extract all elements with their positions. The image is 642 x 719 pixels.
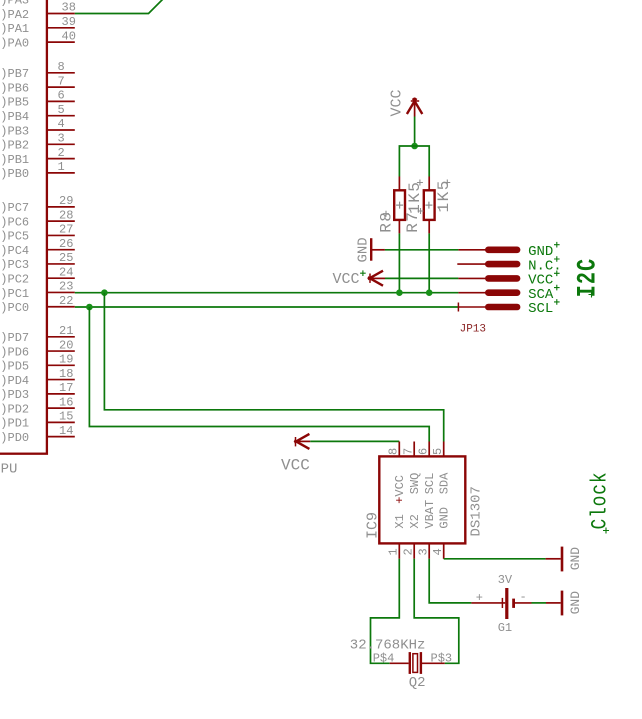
MCU pin PD2 (pin 16) — [47, 407, 75, 409]
MCU pin PB4 (pin 5) — [47, 115, 75, 117]
junction node VCC split — [411, 143, 418, 150]
junction node on PC1 net — [101, 289, 108, 296]
supply symbol VCC (up arrow) above pull-up resistors — [414, 98, 416, 117]
MCU pin PA0 (pin 40) — [47, 41, 75, 43]
svg-text:+VCC: +VCC — [393, 475, 407, 504]
svg-text:)PD7: )PD7 — [0, 331, 29, 345]
svg-text:)PB7: )PB7 — [0, 67, 29, 81]
svg-text:)PB6: )PB6 — [0, 81, 29, 95]
wire GND symbol to I2C pin 1 — [385, 249, 459, 251]
connector JP13 pin 3 VCC — [458, 277, 485, 279]
svg-text:2: 2 — [401, 548, 415, 555]
svg-text:)PD0: )PD0 — [0, 431, 29, 445]
MCU pin PD7 (pin 21) — [47, 336, 75, 338]
MCU pin PD5 (pin 19) — [47, 364, 75, 366]
svg-text:8: 8 — [387, 448, 401, 455]
MCU pin PC6 (pin 28) — [47, 220, 75, 222]
wire battery minus to ground — [532, 602, 547, 604]
wire PA2 pin38 going up-right — [75, 0, 163, 14]
svg-text:VBAT: VBAT — [423, 500, 437, 529]
MCU pin PB6 (pin 7) — [47, 86, 75, 88]
svg-text:3: 3 — [416, 548, 430, 555]
svg-text:GND: GND — [356, 237, 372, 262]
wire DS1307 pin 3 VBAT to battery — [429, 559, 471, 603]
svg-text:18: 18 — [59, 367, 73, 381]
svg-text:)PC0: )PC0 — [0, 301, 29, 315]
svg-text:)PB1: )PB1 — [0, 153, 29, 167]
MCU pin PA2 (pin 38) — [47, 13, 75, 15]
svg-text:SCL: SCL — [423, 473, 437, 495]
svg-text:1: 1 — [58, 160, 65, 174]
svg-text:8: 8 — [58, 60, 65, 74]
battery G1 3V — [471, 602, 505, 604]
svg-text:G1: G1 — [498, 621, 512, 635]
DS1307 bottom pin 4 stub — [443, 543, 445, 558]
svg-text:)PB0: )PB0 — [0, 167, 29, 181]
MCU pin PC1 (pin 23) — [47, 291, 75, 293]
svg-text:SCL: SCL — [528, 301, 553, 317]
wire DS1307 pin 4 to ground — [444, 558, 546, 560]
junction node R7 to SCA wire — [426, 289, 433, 296]
svg-text:1K5: 1K5 — [435, 179, 453, 212]
svg-text:)PA2: )PA2 — [0, 8, 29, 22]
svg-text:6: 6 — [416, 448, 430, 455]
DS1307 bottom pin 3 stub — [428, 543, 430, 558]
svg-text:GND: GND — [568, 591, 583, 615]
wire net SDA: PC1 pin23 to I2C SCA pin — [75, 292, 459, 294]
svg-text:)PC3: )PC3 — [0, 258, 29, 272]
MCU pin PD6 (pin 20) — [47, 350, 75, 352]
svg-text:21: 21 — [59, 324, 73, 338]
svg-text:GND: GND — [438, 507, 452, 529]
svg-text:1K5: 1K5 — [406, 181, 424, 214]
svg-text:VCC: VCC — [281, 457, 310, 475]
svg-text:4: 4 — [58, 117, 65, 131]
svg-text:)PA1: )PA1 — [0, 22, 29, 36]
svg-text:26: 26 — [59, 237, 73, 251]
svg-text:22: 22 — [59, 294, 73, 308]
svg-text:Clock: Clock — [588, 472, 613, 530]
svg-text:Q2: Q2 — [409, 675, 426, 691]
ground symbol at DS1307 pin 4 — [546, 558, 561, 560]
svg-text:40: 40 — [62, 29, 76, 43]
MCU pin PA3 — [47, 0, 75, 1]
svg-text:DS1307: DS1307 — [469, 486, 485, 536]
crystal Q2 32.768KHz — [390, 662, 409, 664]
IC9 DS1307 body — [379, 456, 465, 543]
MCU pin PB1 (pin 2) — [47, 158, 75, 160]
svg-text:23: 23 — [59, 280, 73, 294]
connector JP13 pin 1 GND — [458, 249, 485, 251]
svg-text:38: 38 — [62, 1, 76, 15]
MCU pin PD4 (pin 18) — [47, 379, 75, 381]
MCU pin PB7 (pin 8) — [47, 72, 75, 74]
resistor R8 pin stubs — [398, 177, 400, 191]
supply symbol VCC (left arrow) at I2C connector — [369, 274, 371, 283]
MCU pin PC5 (pin 27) — [47, 234, 75, 236]
svg-text:28: 28 — [59, 208, 73, 222]
svg-text:1: 1 — [387, 548, 401, 555]
svg-text:7: 7 — [401, 448, 415, 455]
DS1307 top pin 7 stub — [413, 442, 415, 457]
svg-text:5: 5 — [58, 103, 65, 117]
svg-text:SWQ: SWQ — [408, 473, 422, 495]
svg-text:IC9: IC9 — [364, 512, 381, 539]
resistor R7 pin stubs — [428, 177, 430, 191]
pin connect tick on SCL pin — [457, 303, 459, 312]
svg-text:20: 20 — [59, 338, 73, 352]
svg-text:X1: X1 — [393, 514, 407, 528]
svg-text:3V: 3V — [498, 573, 513, 587]
svg-text:4: 4 — [431, 548, 445, 555]
junction node R8 to SCA wire — [396, 289, 403, 296]
DS1307 bottom pin 2 stub — [413, 543, 415, 558]
svg-text:29: 29 — [59, 194, 73, 208]
svg-text:16: 16 — [59, 395, 73, 409]
MCU pin PB2 (pin 3) — [47, 143, 75, 145]
wire VCC to DS1307 pin 8 — [310, 440, 399, 442]
svg-text:)PB4: )PB4 — [0, 110, 29, 124]
svg-text:)PD5: )PD5 — [0, 360, 29, 374]
svg-text:7: 7 — [58, 74, 65, 88]
connector JP13 pin 4 SCA — [458, 292, 485, 294]
svg-text:)PD6: )PD6 — [0, 345, 29, 359]
MCU pin PD1 (pin 15) — [47, 421, 75, 423]
wire DS1307 pin 2 X2 to crystal — [414, 559, 459, 664]
svg-text:)PC4: )PC4 — [0, 244, 29, 258]
MCU pin PA1 (pin 39) — [47, 27, 75, 29]
svg-text:6: 6 — [58, 89, 65, 103]
svg-text:39: 39 — [62, 15, 76, 29]
svg-text:P$3: P$3 — [431, 652, 453, 666]
svg-text:)PC7: )PC7 — [0, 201, 29, 215]
DS1307 top pin 5 stub — [443, 442, 445, 457]
svg-text:25: 25 — [59, 251, 73, 265]
supply symbol VCC (left arrow) at DS1307 — [295, 437, 297, 446]
svg-text:SDA: SDA — [438, 472, 452, 494]
svg-text:)PD4: )PD4 — [0, 374, 29, 388]
wire PC0 branch down to DS1307 SCL pin 6 — [89, 307, 429, 442]
svg-text:27: 27 — [59, 223, 73, 237]
svg-text:3: 3 — [58, 132, 65, 146]
MCU pin PC7 (pin 29) — [47, 206, 75, 208]
MCU pin PB5 (pin 6) — [47, 100, 75, 102]
MCU pin PB0 (pin 1) — [47, 172, 75, 174]
svg-text:VCC: VCC — [333, 271, 360, 288]
MCU pin PC3 (pin 25) — [47, 263, 75, 265]
svg-text:)PB3: )PB3 — [0, 124, 29, 138]
resistor R7 body 1K5 — [424, 190, 435, 220]
MCU pin PC2 (pin 24) — [47, 277, 75, 279]
svg-text:5: 5 — [431, 448, 445, 455]
MCU pin PD3 (pin 17) — [47, 393, 75, 395]
svg-text:)PC1: )PC1 — [0, 287, 29, 301]
wire VCC arrow down to split node — [414, 117, 416, 147]
svg-text:)PA0: )PA0 — [0, 36, 29, 50]
wire VCC split to R8 and R7 tops — [399, 146, 429, 177]
svg-text:2: 2 — [58, 146, 65, 160]
svg-text:+: + — [476, 591, 483, 605]
wire VCC symbol to I2C pin 3 — [385, 277, 458, 279]
svg-text:)PC5: )PC5 — [0, 230, 29, 244]
MCU pin PC0 (pin 22) — [47, 306, 75, 308]
MCU pin PC4 (pin 26) — [47, 249, 75, 251]
DS1307 bottom pin 1 stub — [398, 543, 400, 558]
svg-text:JP13: JP13 — [460, 324, 486, 336]
MCU pin PD0 (pin 14) — [47, 436, 75, 438]
svg-text:-: - — [520, 590, 527, 604]
svg-text:)PC6: )PC6 — [0, 215, 29, 229]
wire R7 bottom to SDA net — [428, 233, 430, 292]
svg-text:15: 15 — [59, 410, 73, 424]
svg-text:)PA3: )PA3 — [0, 0, 29, 8]
svg-text:)PD1: )PD1 — [0, 417, 29, 431]
svg-text:19: 19 — [59, 353, 73, 367]
svg-text:GND: GND — [568, 547, 583, 571]
svg-text:I2C: I2C — [573, 258, 604, 298]
resistor R8 body 1K5 — [394, 190, 405, 220]
connector JP13 pin 5 SCL — [458, 306, 485, 308]
wire DS1307 pin 1 X1 to crystal — [371, 559, 400, 664]
svg-text:17: 17 — [59, 381, 73, 395]
svg-text:)PD3: )PD3 — [0, 388, 29, 402]
svg-text:)PB5: )PB5 — [0, 96, 29, 110]
ground symbol GND at I2C connector — [370, 238, 372, 261]
connector JP13 pin 2 N.C. — [457, 263, 485, 265]
svg-text:VCC: VCC — [388, 89, 405, 116]
svg-text:X2: X2 — [408, 514, 422, 528]
DS1307 top pin 6 stub — [428, 442, 430, 457]
svg-text:)PD2: )PD2 — [0, 402, 29, 416]
wire net SCL: PC0 pin22 to I2C SCL pin — [75, 306, 459, 308]
MCU pin PB3 (pin 4) — [47, 129, 75, 131]
wire PC1 branch down to DS1307 SDA pin 5 — [104, 293, 443, 442]
svg-text:)PC2: )PC2 — [0, 273, 29, 287]
MCU IC1 CPU body — [0, 0, 47, 454]
junction node on PC0 net — [86, 304, 93, 311]
svg-text:P$4: P$4 — [373, 652, 395, 666]
DS1307 top pin 8 stub — [398, 442, 400, 457]
svg-text:24: 24 — [59, 265, 73, 279]
svg-text:R7: R7 — [404, 211, 422, 233]
svg-text:14: 14 — [59, 424, 73, 438]
svg-text:PU: PU — [1, 462, 18, 478]
wire R8 bottom to SDA net — [398, 233, 400, 292]
ground symbol at battery — [546, 602, 561, 604]
svg-text:)PB2: )PB2 — [0, 139, 29, 153]
